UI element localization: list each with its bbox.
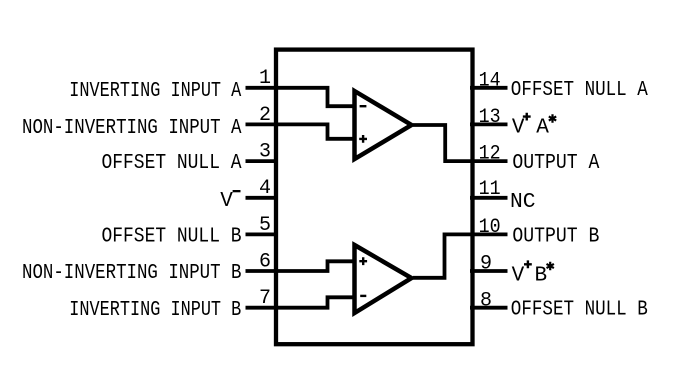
svg-text:INVERTING INPUT A: INVERTING INPUT A (69, 80, 241, 103)
superscript plus of V+ A* (523, 113, 531, 121)
svg-text:NON-INVERTING INPUT B: NON-INVERTING INPUT B (22, 262, 242, 285)
superscript minus of V- (233, 190, 241, 192)
svg-text:OUTPUT B: OUTPUT B (512, 225, 599, 248)
svg-text:3: 3 (259, 141, 271, 164)
wire pin 11 stub (470, 196, 508, 200)
wire pin 8 stub (470, 306, 508, 310)
superscript plus of V+ B* (524, 260, 532, 268)
svg-text:V: V (512, 265, 525, 288)
wire pin 3 stub (246, 159, 278, 163)
U1A plus symbol (359, 135, 367, 143)
wire U1B output to pin 10 (413, 234, 508, 277)
svg-text:7: 7 (259, 287, 271, 310)
svg-text:V: V (220, 190, 233, 213)
svg-text:V: V (512, 117, 525, 140)
svg-text:1: 1 (259, 67, 271, 90)
wire pin 4 stub (246, 196, 278, 200)
wire pin 6 to non-inverting input of U1B (246, 261, 357, 271)
op-amp U1B triangle (355, 245, 412, 313)
svg-text:8: 8 (480, 289, 492, 312)
svg-text:INVERTING INPUT B: INVERTING INPUT B (69, 299, 241, 322)
svg-text:OFFSET NULL B: OFFSET NULL B (511, 299, 648, 322)
U1B minus symbol (360, 295, 366, 297)
svg-text:9: 9 (480, 253, 492, 276)
svg-text:OFFSET NULL B: OFFSET NULL B (102, 225, 242, 248)
wire pin 14 stub (470, 86, 508, 90)
wire pin 9 stub (470, 269, 508, 273)
svg-text:12: 12 (479, 143, 501, 166)
svg-text:A: A (536, 117, 549, 140)
op-amp U1A triangle (355, 91, 412, 159)
svg-text:NON-INVERTING INPUT A: NON-INVERTING INPUT A (22, 117, 242, 140)
wire pin 7 to inverting input of U1B (246, 297, 357, 307)
svg-text:14: 14 (479, 69, 501, 92)
svg-text:NC: NC (510, 191, 536, 214)
wire pin 13 stub (470, 123, 508, 127)
wire U1A output to pin 12 (413, 125, 508, 161)
U1A minus symbol (360, 105, 367, 107)
U1B plus symbol (359, 257, 367, 265)
svg-text:10: 10 (479, 216, 501, 239)
wire pin 5 stub (246, 232, 278, 236)
svg-text:4: 4 (259, 177, 271, 200)
svg-text:11: 11 (479, 178, 501, 201)
svg-text:6: 6 (259, 250, 271, 273)
asterisk of V+ A* (549, 114, 556, 123)
wire pin 2 to non-inverting input of U1A (246, 124, 357, 138)
svg-text:OFFSET NULL A: OFFSET NULL A (102, 152, 242, 175)
svg-text:B: B (534, 265, 547, 288)
svg-text:13: 13 (479, 106, 501, 129)
svg-text:OUTPUT A: OUTPUT A (512, 152, 599, 175)
svg-text:5: 5 (259, 214, 271, 237)
wire pin 1 to inverting input of U1A (246, 88, 357, 106)
svg-text:2: 2 (259, 104, 271, 127)
IC body U1 (276, 50, 473, 345)
asterisk of V+ B* (547, 262, 554, 271)
svg-text:OFFSET NULL A: OFFSET NULL A (511, 79, 648, 102)
